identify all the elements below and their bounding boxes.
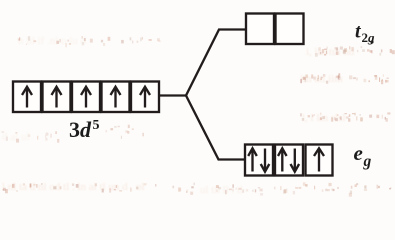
paired down arrow in eg box 2 bbox=[291, 149, 300, 172]
svg-text:e: e bbox=[354, 141, 363, 165]
eg box 3 bbox=[306, 145, 333, 176]
t2g box 2 (empty) bbox=[276, 14, 304, 45]
3d orbital box 1 bbox=[13, 82, 41, 113]
svg-text:ul tn ll . tl: ul tn ll . tl bbox=[200, 184, 243, 196]
svg-text:g: g bbox=[363, 153, 372, 170]
eg box 2 bbox=[275, 145, 303, 176]
svg-text:2g: 2g bbox=[362, 30, 376, 45]
paired up arrow in eg box 1 bbox=[248, 148, 257, 171]
wire branch down to eg level bbox=[186, 96, 245, 160]
single up arrow in eg box 3 bbox=[314, 148, 324, 171]
label eg bbox=[354, 141, 372, 170]
up electron arrow in 3d box 5 bbox=[140, 87, 150, 108]
up electron arrow in 3d box 4 bbox=[111, 87, 121, 108]
faint scan bleed vertical line at left edge bbox=[5, 79, 7, 112]
eg box 1 bbox=[245, 145, 273, 176]
svg-text:l nl ta d nl od tl . ln al tl: l nl ta d nl od tl . ln al tl un d . ol bbox=[2, 181, 144, 193]
wire from 3d row to branch point bbox=[159, 94, 186, 96]
label t2g bbox=[355, 21, 375, 46]
3d orbital box 3 bbox=[72, 82, 100, 113]
paired down arrow in eg box 1 bbox=[261, 149, 270, 172]
svg-text:i, im tui nd: i, im tui nd bbox=[306, 46, 355, 58]
3d orbital box 5 bbox=[131, 82, 159, 113]
3d orbital box 4 bbox=[102, 82, 130, 113]
faint bleed-through text rows (decorative scan noise) bbox=[2, 35, 355, 196]
scan speckle noise (decorative) bbox=[2, 36, 395, 197]
up electron arrow in 3d box 3 bbox=[81, 87, 91, 108]
up electron arrow in 3d box 1 bbox=[22, 87, 32, 108]
paired up arrow in eg box 2 bbox=[278, 148, 287, 171]
label 3d^5 bbox=[69, 117, 100, 142]
wire branch up to t2g level bbox=[186, 30, 246, 96]
3d orbital box 2 bbox=[43, 82, 71, 113]
t2g box 1 (empty) bbox=[246, 14, 274, 45]
up electron arrow in 3d box 2 bbox=[52, 87, 62, 108]
stray ink dot top right bbox=[370, 40, 373, 43]
